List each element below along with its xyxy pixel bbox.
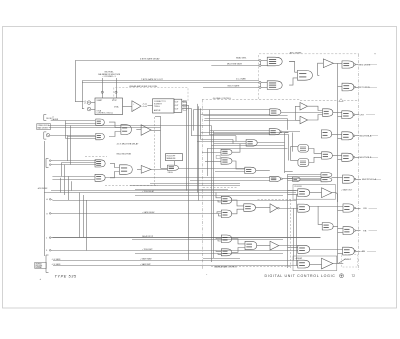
svg-text:+: + xyxy=(133,103,135,105)
wire xyxy=(367,251,376,253)
wire xyxy=(231,209,244,214)
wire curl xyxy=(332,193,338,202)
source symbol xyxy=(87,101,91,105)
wire xyxy=(369,230,378,232)
wire xyxy=(308,115,323,121)
svg-text:RST DRIVE: RST DRIVE xyxy=(359,87,371,89)
wire xyxy=(160,116,162,168)
node xyxy=(354,64,356,66)
wire xyxy=(291,160,298,162)
wire xyxy=(110,172,120,178)
wire xyxy=(288,180,322,182)
svg-text:+ SAW SWP: + SAW SWP xyxy=(140,263,151,266)
source symbol xyxy=(46,134,49,137)
svg-text:GLOBAL CONTROL: GLOBAL CONTROL xyxy=(213,97,232,100)
wire xyxy=(150,183,240,185)
wire xyxy=(261,87,267,89)
svg-text:7 BITS GATE DLY OUT: 7 BITS GATE DLY OUT xyxy=(141,78,164,81)
svg-text:MULTIVIB GATE: MULTIVIB GATE xyxy=(227,63,243,66)
node xyxy=(281,178,283,180)
node xyxy=(353,156,355,158)
wire xyxy=(61,163,63,177)
node xyxy=(354,86,356,88)
svg-text:MILL MULTIVIB: MILL MULTIVIB xyxy=(117,154,132,156)
wire xyxy=(368,87,377,89)
wire xyxy=(290,147,292,161)
wire xyxy=(202,152,221,154)
wire xyxy=(135,189,228,191)
wire xyxy=(231,200,244,206)
svg-text:LAMBDA GAIN CONTROL: LAMBDA GAIN CONTROL xyxy=(214,265,237,268)
output stage box U3 xyxy=(174,99,182,112)
stub box xyxy=(183,108,186,110)
svg-text:OUT: OUT xyxy=(175,101,179,103)
op-amp A2 xyxy=(323,59,333,68)
wire xyxy=(356,208,361,210)
wire xyxy=(52,164,96,166)
wire xyxy=(288,134,290,160)
wire xyxy=(161,168,168,170)
wire xyxy=(288,178,322,180)
break symbol xyxy=(339,99,343,102)
wire xyxy=(288,190,298,192)
wire xyxy=(207,148,209,176)
text bars xyxy=(300,161,306,165)
wire xyxy=(201,139,233,141)
bracket xyxy=(44,115,47,121)
pickoff wire xyxy=(338,259,345,264)
wire xyxy=(338,210,343,212)
wire xyxy=(287,119,289,130)
svg-text:TYPE 535: TYPE 535 xyxy=(55,274,77,279)
svg-text:+SWEEP: +SWEEP xyxy=(344,259,352,261)
wire xyxy=(218,240,221,241)
svg-text:MEASURE: MEASURE xyxy=(167,157,177,160)
wire xyxy=(332,155,342,157)
wire xyxy=(289,61,295,63)
svg-text:OUT: OUT xyxy=(175,109,179,111)
wire xyxy=(174,161,176,165)
coupling marks xyxy=(143,104,147,107)
wire xyxy=(366,114,375,116)
and-gate U37 xyxy=(322,223,333,230)
wire xyxy=(338,159,342,161)
wire xyxy=(356,64,359,66)
wire xyxy=(369,208,378,210)
op-amp A5 xyxy=(300,103,308,111)
wire xyxy=(214,143,246,145)
gate U40 xyxy=(343,247,355,255)
wire xyxy=(288,194,298,196)
or-gate U45 xyxy=(221,235,231,243)
op-amp A4 xyxy=(141,166,151,174)
wire xyxy=(338,228,343,230)
and-gate U14 xyxy=(120,165,133,175)
wire xyxy=(218,200,221,202)
gate U23 xyxy=(270,176,281,181)
wire xyxy=(197,141,246,143)
circled symbol xyxy=(340,274,344,278)
wire bus xyxy=(188,105,190,260)
or-gate U39 xyxy=(298,245,310,253)
svg-text:CRT: CRT xyxy=(360,115,365,117)
or-gate U20 xyxy=(221,149,232,155)
wire xyxy=(132,239,283,241)
op-amp A1 xyxy=(132,101,141,112)
node xyxy=(280,131,282,133)
wire bus xyxy=(209,110,211,135)
wire trig line xyxy=(51,120,95,122)
wire xyxy=(279,245,298,247)
wire xyxy=(102,78,104,98)
control oscillator box U1 xyxy=(95,98,123,115)
wire xyxy=(151,130,161,132)
or-gate U43 xyxy=(221,210,231,218)
wire 4-bits gate delay xyxy=(75,60,259,62)
gate U25 xyxy=(343,175,355,183)
wire xyxy=(75,61,77,102)
svg-text:OUT: OUT xyxy=(175,105,179,107)
wire xyxy=(355,114,359,116)
wire xyxy=(261,82,267,84)
wire xyxy=(136,129,141,131)
or-gate U34 xyxy=(298,189,310,197)
wire bus xyxy=(213,131,215,258)
wire xyxy=(309,192,321,194)
dashed box output xyxy=(342,255,358,268)
wire xyxy=(332,177,343,179)
svg-text:4.5 X MULTIVIB DELAY: 4.5 X MULTIVIB DELAY xyxy=(117,143,139,146)
wire xyxy=(130,185,240,187)
svg-text:575A: 575A xyxy=(114,106,119,109)
terminal xyxy=(49,160,52,162)
wire xyxy=(65,121,67,139)
bracket xyxy=(44,132,47,139)
wire bus xyxy=(191,108,193,135)
svg-text:D: D xyxy=(46,250,48,252)
wire bus xyxy=(200,108,202,139)
wire xyxy=(219,214,222,216)
wire xyxy=(231,239,245,244)
node xyxy=(354,230,356,232)
svg-text:C/B: C/B xyxy=(363,208,367,210)
source symbol xyxy=(87,107,91,111)
wire xyxy=(214,133,270,135)
node xyxy=(354,178,356,180)
or-gate U42 xyxy=(221,196,231,204)
wire xyxy=(371,157,378,159)
wire xyxy=(281,112,323,114)
terminal xyxy=(49,164,52,166)
dashed line xyxy=(300,100,337,102)
wire xyxy=(182,108,192,110)
wire xyxy=(356,230,361,232)
wire xyxy=(338,138,342,140)
or-gate U32 xyxy=(322,152,333,159)
gate U24b xyxy=(321,178,332,182)
wire xyxy=(309,206,343,208)
wire xyxy=(368,64,377,66)
wire xyxy=(217,212,221,214)
or-gate U12 xyxy=(95,160,105,167)
wire xyxy=(82,82,259,84)
wire xyxy=(231,248,245,253)
svg-text:+: + xyxy=(374,52,376,55)
dash-dot line right xyxy=(358,54,360,271)
wire +2v gate line xyxy=(53,265,298,267)
wire xyxy=(292,133,294,152)
and-gate U44 xyxy=(244,204,256,212)
svg-text:+ GATE DELAY: + GATE DELAY xyxy=(142,211,155,214)
svg-text:+ SWEEP: + SWEEP xyxy=(295,258,303,260)
wire xyxy=(309,249,342,251)
wire xyxy=(91,109,95,111)
wire xyxy=(109,132,121,137)
wire xyxy=(279,208,298,210)
svg-text:TRIGGER: TRIGGER xyxy=(35,265,43,267)
wire multivib gate xyxy=(211,65,259,67)
stub box xyxy=(183,101,186,103)
wire multi gate xyxy=(203,87,259,89)
wire xyxy=(232,140,234,144)
wire xyxy=(260,83,262,86)
dashed line xyxy=(154,117,156,185)
node xyxy=(353,114,355,116)
wire xyxy=(60,178,62,193)
svg-text:STOP: STOP xyxy=(112,100,118,102)
terminal xyxy=(49,237,52,239)
wire xyxy=(51,190,296,192)
wire xyxy=(338,253,343,255)
and-gate U11 xyxy=(121,125,132,135)
wire xyxy=(371,135,378,137)
svg-text:HOLDOFF: HOLDOFF xyxy=(38,188,48,190)
wire xyxy=(110,163,120,167)
wire xyxy=(295,106,300,108)
wire xyxy=(135,195,283,197)
wire xyxy=(50,135,95,137)
text bars xyxy=(300,147,306,151)
wire xyxy=(285,171,293,173)
wire xyxy=(255,170,269,172)
node xyxy=(354,207,356,209)
gate U4 xyxy=(267,57,282,66)
wire xyxy=(291,146,298,148)
wire xyxy=(257,142,285,144)
wire xyxy=(204,120,295,122)
svg-text:+: + xyxy=(206,274,208,276)
wire xyxy=(67,135,69,161)
wire bus xyxy=(211,126,213,263)
wire xyxy=(52,160,96,162)
or-gate U46 xyxy=(221,249,231,256)
wire xyxy=(207,148,287,150)
or-gate U9 xyxy=(96,119,105,125)
wire xyxy=(201,114,270,116)
wire xyxy=(75,101,84,103)
wire +5v gate line xyxy=(53,260,298,262)
wire bus main xyxy=(337,63,339,263)
and-gate U47 xyxy=(245,241,257,249)
wire xyxy=(289,78,297,85)
coupling marks xyxy=(84,101,86,103)
svg-text:MULTIVIB-B: MULTIVIB-B xyxy=(360,157,372,159)
wire left vertical xyxy=(44,141,46,256)
wire xyxy=(203,258,240,260)
svg-text:TRIGG: TRIGG xyxy=(154,106,160,108)
wire xyxy=(308,106,323,110)
wire xyxy=(216,237,221,240)
gate U28 xyxy=(321,130,331,138)
svg-text:DELAY STOP: DELAY STOP xyxy=(142,235,154,238)
wire xyxy=(293,208,295,260)
wire xyxy=(232,161,245,169)
node xyxy=(353,135,355,137)
wire xyxy=(284,133,286,173)
wire xyxy=(260,62,262,65)
svg-text:+: + xyxy=(40,278,42,281)
wire xyxy=(356,87,359,89)
wire xyxy=(331,134,342,136)
wire xyxy=(79,193,81,238)
dashed line xyxy=(105,185,158,187)
wire xyxy=(49,127,161,129)
dashed vertical xyxy=(290,200,292,269)
wire xyxy=(205,118,288,120)
wire xyxy=(295,106,297,120)
wire xyxy=(135,253,283,255)
svg-text:+ GATE OUT: + GATE OUT xyxy=(341,188,353,191)
wire xyxy=(191,135,236,137)
wire xyxy=(211,145,284,147)
wire xyxy=(155,116,161,118)
wire xyxy=(355,135,359,137)
svg-text:LAMBDA: LAMBDA xyxy=(35,263,41,266)
terminal xyxy=(49,250,52,252)
wire xyxy=(285,132,289,134)
gate U27 xyxy=(342,111,353,119)
box pickoff xyxy=(293,185,336,200)
wire xyxy=(309,157,322,162)
gate U17 xyxy=(270,109,281,115)
gate U38 xyxy=(343,227,354,235)
wire xyxy=(288,247,298,249)
node xyxy=(115,91,117,93)
wire xyxy=(338,116,342,118)
wire xyxy=(356,251,361,253)
wire xyxy=(178,168,245,170)
node xyxy=(354,250,356,252)
wire xyxy=(71,181,73,190)
wire xyxy=(210,134,289,136)
svg-text:DIGITAL UNIT CONTROL LOGIC: DIGITAL UNIT CONTROL LOGIC xyxy=(265,274,336,278)
wire xyxy=(289,62,297,73)
op-amp A6 xyxy=(300,116,308,124)
svg-text:-: - xyxy=(133,109,134,111)
wire xyxy=(109,122,121,127)
terminal xyxy=(49,199,52,201)
svg-text:START: START xyxy=(97,99,104,102)
wire xyxy=(68,136,96,138)
svg-text:SEAL GEN.: SEAL GEN. xyxy=(236,56,247,59)
op-amp A10 xyxy=(270,241,279,250)
dash-dot line xyxy=(202,99,204,268)
disconnect amplifier box U2 xyxy=(153,99,175,113)
node xyxy=(259,65,261,67)
node xyxy=(259,87,261,89)
wire xyxy=(52,237,320,239)
dashed box arc gates xyxy=(259,54,359,99)
or-gate U26 xyxy=(323,109,333,117)
wire xyxy=(261,65,267,67)
node xyxy=(259,60,261,62)
wire xyxy=(68,176,70,200)
wire xyxy=(52,179,95,181)
text box tunnel diode xyxy=(37,124,51,130)
wire xyxy=(256,245,270,247)
wire xyxy=(309,264,321,266)
wire xyxy=(182,105,189,107)
op-amp A8 xyxy=(322,258,333,269)
dashed line xyxy=(85,156,107,158)
wire xyxy=(261,60,267,62)
svg-text:AMPLIF: AMPLIF xyxy=(154,109,161,112)
svg-text:T/B: T/B xyxy=(363,231,367,233)
wire xyxy=(64,165,66,180)
wire xyxy=(355,157,359,159)
wire xyxy=(201,132,289,134)
or-gate U35 xyxy=(298,204,310,212)
dashed line lambda gain xyxy=(211,266,290,268)
svg-text:+ARC GATES: +ARC GATES xyxy=(289,51,302,54)
wire xyxy=(52,200,296,202)
wire xyxy=(205,161,221,163)
gate U8 xyxy=(342,83,354,91)
wire xyxy=(338,86,342,88)
wire xyxy=(70,126,72,165)
holdoff measure box U15 xyxy=(166,154,183,161)
bracket xyxy=(46,159,49,168)
wire calib line xyxy=(49,125,212,127)
gate U33 xyxy=(342,153,353,161)
gate U7 xyxy=(342,61,354,68)
wire xyxy=(287,174,289,268)
gate U36 xyxy=(343,204,354,212)
gate U23b xyxy=(293,177,301,181)
wire xyxy=(116,78,118,98)
text box lambda trigger xyxy=(35,262,46,268)
wire xyxy=(356,179,361,181)
wire xyxy=(210,130,270,132)
wire xyxy=(318,63,324,75)
multivib box U30 xyxy=(298,145,309,153)
wire xyxy=(194,109,270,111)
wire xyxy=(282,131,300,133)
wire xyxy=(288,174,322,176)
wire bus xyxy=(197,104,199,193)
wire xyxy=(338,232,343,234)
wire xyxy=(137,169,141,171)
svg-text:4 BITS GATE DELAY: 4 BITS GATE DELAY xyxy=(140,58,160,61)
or-gate U21 xyxy=(221,158,232,164)
svg-text:PICKOFF: PICKOFF xyxy=(295,186,302,188)
svg-text:CONTROL OSCILL: CONTROL OSCILL xyxy=(97,113,113,115)
wire xyxy=(65,123,96,125)
wire xyxy=(82,81,84,109)
wire xyxy=(105,177,270,179)
wire xyxy=(148,105,153,107)
wire xyxy=(216,250,221,253)
